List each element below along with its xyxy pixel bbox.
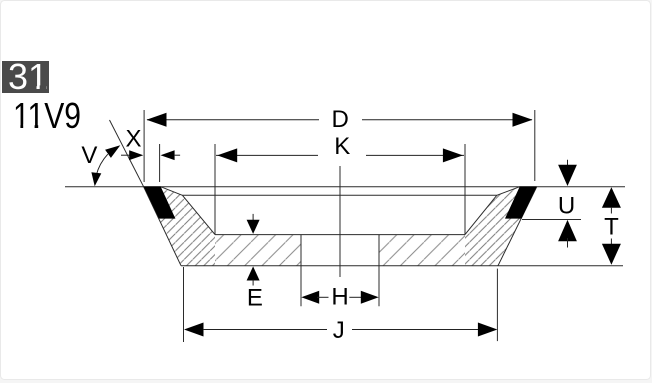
right lip bbox=[497, 187, 520, 196]
abrasive pad left bbox=[144, 186, 176, 218]
hatched left wall (dense) bbox=[144, 187, 215, 266]
hole left edge + H ext bbox=[300, 235, 302, 307]
U bottom ref line bbox=[522, 219, 581, 221]
J right ext bbox=[496, 269, 498, 342]
recess left wall bbox=[182, 195, 215, 234]
svg-text:X: X bbox=[125, 125, 141, 152]
V arc lower arrowhead bbox=[91, 172, 101, 186]
serif masks for title digits 1 bbox=[14, 125, 20, 129]
bottom face line (with T bottom ref right ext) bbox=[181, 265, 623, 267]
left lip bbox=[161, 187, 183, 196]
outer edge left bbox=[144, 187, 181, 266]
J dimension bbox=[184, 323, 497, 337]
svg-text:11V9: 11V9 bbox=[13, 95, 81, 136]
svg-text:H: H bbox=[331, 284, 348, 311]
abrasive pad right bbox=[505, 186, 537, 218]
K left ext bbox=[214, 144, 216, 235]
D dimension bbox=[147, 113, 533, 127]
E dimension bbox=[247, 214, 260, 286]
V angle arc bbox=[96, 154, 108, 175]
extension lines bbox=[144, 110, 535, 342]
X dimension bbox=[121, 150, 180, 160]
V slant extension line bbox=[110, 120, 144, 187]
hatched bottom strip minus hole (sparse) bbox=[215, 235, 465, 266]
31 badge bbox=[2, 61, 49, 93]
svg-text:J: J bbox=[333, 317, 345, 344]
D/X left ext bbox=[143, 110, 145, 182]
U dimension bbox=[558, 160, 577, 248]
centerline bbox=[339, 166, 341, 277]
top face line (with V ref left ext and T top ref right ext) bbox=[65, 186, 625, 188]
hatched right wall (dense) bbox=[465, 187, 537, 266]
svg-text:31: 31 bbox=[8, 56, 48, 97]
H dimension bbox=[301, 291, 378, 304]
svg-text:K: K bbox=[334, 133, 350, 160]
outer edge right bbox=[498, 187, 537, 266]
svg-text:V: V bbox=[81, 142, 97, 169]
recess floor line bbox=[215, 234, 465, 236]
hole right edge + H ext bbox=[378, 235, 380, 307]
recess right wall bbox=[465, 195, 497, 234]
X right ext bbox=[159, 144, 161, 182]
svg-text:U: U bbox=[558, 193, 575, 220]
V arc upper arrowhead bbox=[105, 145, 120, 158]
svg-text:E: E bbox=[247, 285, 263, 312]
D right ext bbox=[534, 110, 536, 181]
K dimension bbox=[216, 148, 464, 162]
wheel outline bbox=[65, 120, 625, 306]
rim inner edge line bbox=[182, 194, 496, 196]
svg-text:T: T bbox=[604, 214, 619, 241]
K right ext bbox=[464, 144, 466, 235]
J left ext bbox=[183, 267, 185, 342]
serif masks for badge digit 1 bbox=[30, 85, 36, 89]
T dimension bbox=[602, 187, 621, 264]
svg-text:D: D bbox=[332, 106, 349, 133]
